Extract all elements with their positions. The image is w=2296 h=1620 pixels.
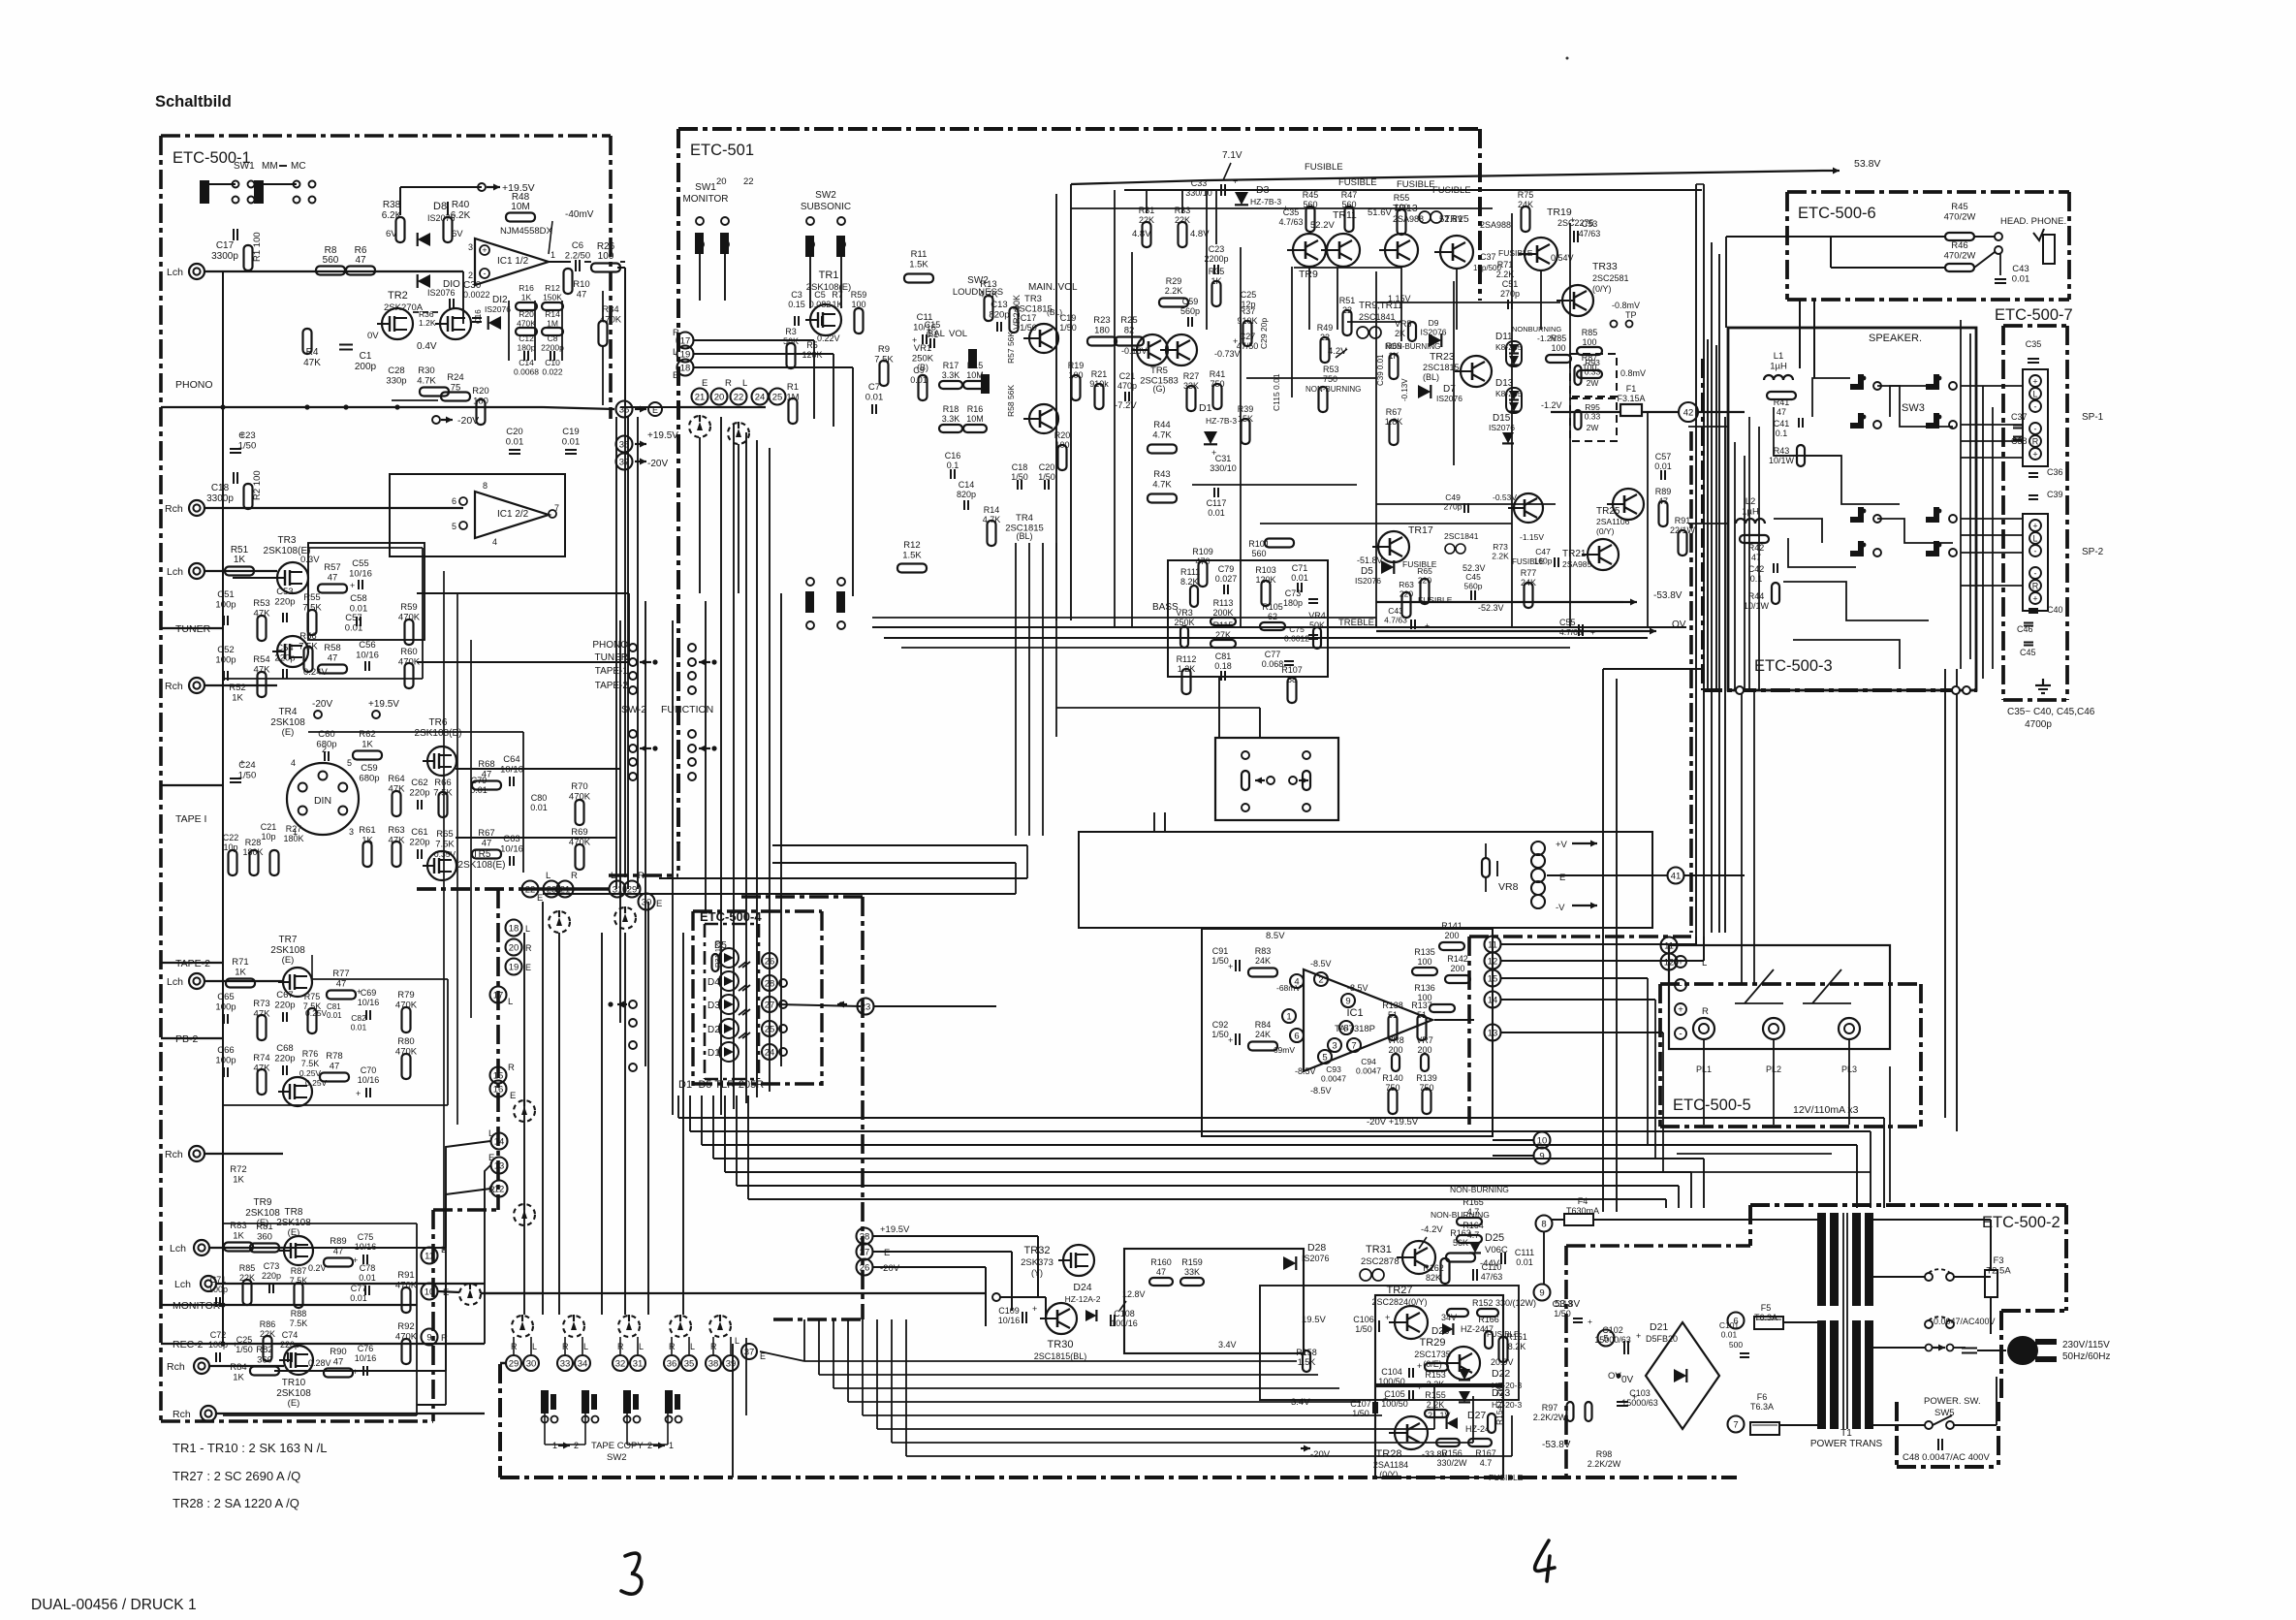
svg-text:-40mV: -40mV bbox=[565, 209, 594, 220]
svg-text:R78: R78 bbox=[326, 1051, 342, 1062]
svg-text:SW1: SW1 bbox=[695, 182, 716, 193]
svg-text:30: 30 bbox=[642, 897, 652, 907]
svg-text:8.2K: 8.2K bbox=[1508, 1342, 1526, 1351]
svg-text:470K: 470K bbox=[395, 1281, 418, 1291]
svg-text:T6.3A: T6.3A bbox=[1750, 1402, 1774, 1412]
svg-text:-8.5V: -8.5V bbox=[1295, 1066, 1316, 1076]
svg-text:R83: R83 bbox=[1255, 946, 1272, 956]
svg-text:0.01: 0.01 bbox=[359, 1273, 376, 1283]
svg-text:470K: 470K bbox=[395, 1332, 418, 1343]
svg-text:MM: MM bbox=[262, 161, 278, 172]
svg-text:FUSIBLE: FUSIBLE bbox=[1305, 162, 1343, 173]
svg-text:20: 20 bbox=[509, 942, 519, 953]
svg-text:C51: C51 bbox=[1502, 279, 1519, 289]
svg-text:R54: R54 bbox=[253, 654, 269, 665]
svg-text:ETC-500-3: ETC-500-3 bbox=[1754, 657, 1833, 675]
svg-text:C22: C22 bbox=[223, 833, 239, 842]
svg-text:0.1: 0.1 bbox=[947, 461, 959, 470]
svg-text:D1: D1 bbox=[708, 1048, 720, 1059]
svg-text:C37: C37 bbox=[1480, 252, 1496, 262]
svg-text:53.8V: 53.8V bbox=[1854, 158, 1880, 170]
svg-text:C52: C52 bbox=[217, 645, 234, 655]
svg-text:360: 360 bbox=[257, 1232, 272, 1243]
svg-text:50Hz/60Hz: 50Hz/60Hz bbox=[2062, 1351, 2110, 1362]
svg-text:C57: C57 bbox=[1655, 452, 1672, 461]
svg-text:R: R bbox=[441, 1333, 448, 1344]
svg-text:R65: R65 bbox=[1417, 566, 1432, 576]
svg-text:4.7K: 4.7K bbox=[1152, 430, 1172, 441]
svg-text:0.1: 0.1 bbox=[1750, 574, 1763, 584]
svg-text:C31: C31 bbox=[1215, 454, 1232, 463]
svg-text:R63: R63 bbox=[1399, 580, 1414, 589]
svg-text:+: + bbox=[1233, 336, 1238, 346]
svg-text:(E): (E) bbox=[282, 727, 295, 738]
svg-text:2W: 2W bbox=[1587, 423, 1599, 432]
svg-text:0.082: 0.082 bbox=[809, 300, 832, 309]
svg-text:E: E bbox=[656, 899, 662, 909]
svg-text:L: L bbox=[525, 924, 530, 934]
svg-text:10: 10 bbox=[425, 1286, 435, 1297]
svg-text:R: R bbox=[2032, 437, 2039, 447]
svg-text:R52: R52 bbox=[229, 683, 245, 693]
svg-text:FUSIBLE: FUSIBLE bbox=[1397, 179, 1435, 190]
svg-text:TR2: TR2 bbox=[388, 290, 408, 302]
svg-text:100p: 100p bbox=[215, 600, 236, 611]
svg-text:2W: 2W bbox=[1587, 378, 1599, 388]
svg-text:L: L bbox=[2032, 534, 2037, 544]
svg-text:-0.18V: -0.18V bbox=[1121, 346, 1148, 356]
svg-text:2SC2824(0/Y): 2SC2824(0/Y) bbox=[1371, 1297, 1427, 1307]
svg-text:2.2K: 2.2K bbox=[1492, 552, 1509, 561]
svg-text:IC1 1/2: IC1 1/2 bbox=[497, 256, 529, 267]
svg-text:D9: D9 bbox=[1429, 318, 1439, 328]
svg-text:D8: D8 bbox=[433, 201, 447, 212]
svg-text:C75: C75 bbox=[1289, 624, 1305, 634]
svg-text:L: L bbox=[488, 1128, 493, 1139]
svg-text:ETC-501: ETC-501 bbox=[690, 142, 754, 159]
svg-text:200p: 200p bbox=[355, 362, 377, 372]
svg-text:R51: R51 bbox=[1339, 296, 1356, 305]
svg-text:7.5K: 7.5K bbox=[301, 1059, 320, 1068]
svg-text:100p: 100p bbox=[208, 1285, 228, 1294]
svg-text:R84: R84 bbox=[1255, 1020, 1272, 1030]
svg-text:IS2076: IS2076 bbox=[1436, 394, 1463, 403]
svg-text:R41: R41 bbox=[1210, 369, 1226, 379]
svg-text:D3: D3 bbox=[708, 1001, 720, 1011]
svg-text:470p: 470p bbox=[1117, 381, 1137, 391]
svg-text:VR8: VR8 bbox=[1498, 881, 1519, 893]
svg-text:120K: 120K bbox=[802, 350, 822, 360]
svg-text:-1.15V: -1.15V bbox=[1520, 532, 1544, 542]
svg-text:+: + bbox=[1678, 1005, 1683, 1016]
svg-text:-8.5V: -8.5V bbox=[1310, 1086, 1332, 1096]
svg-text:7: 7 bbox=[1351, 1040, 1356, 1051]
svg-text:470K: 470K bbox=[398, 613, 421, 623]
svg-text:2K: 2K bbox=[1395, 329, 1405, 338]
svg-text:2.2K/2W: 2.2K/2W bbox=[1533, 1413, 1567, 1422]
svg-text:-0.13V: -0.13V bbox=[1400, 378, 1409, 401]
svg-text:FUSIBLE: FUSIBLE bbox=[1512, 557, 1544, 566]
svg-text:1K: 1K bbox=[233, 1231, 244, 1242]
svg-text:E: E bbox=[884, 1248, 890, 1258]
svg-text:3.3K: 3.3K bbox=[942, 414, 960, 424]
svg-text:4: 4 bbox=[291, 758, 296, 768]
svg-text:E: E bbox=[525, 963, 531, 972]
svg-text:F6: F6 bbox=[1757, 1392, 1768, 1402]
svg-text:470/2W: 470/2W bbox=[1944, 212, 1976, 223]
svg-text:C12: C12 bbox=[519, 334, 534, 343]
svg-text:R137: R137 bbox=[1411, 1001, 1432, 1010]
svg-text:C81: C81 bbox=[327, 1002, 341, 1011]
svg-text:0.18: 0.18 bbox=[1214, 661, 1232, 671]
svg-text:C77: C77 bbox=[351, 1284, 367, 1293]
svg-text:820p: 820p bbox=[989, 310, 1009, 321]
svg-text:0.01: 0.01 bbox=[530, 803, 548, 812]
svg-text:R41: R41 bbox=[1774, 397, 1790, 407]
svg-text:R24: R24 bbox=[447, 372, 463, 383]
svg-text:5: 5 bbox=[452, 522, 456, 531]
svg-text:C110: C110 bbox=[1482, 1262, 1502, 1272]
svg-text:HZ-24: HZ-24 bbox=[1465, 1424, 1490, 1434]
svg-text:VR4: VR4 bbox=[1308, 611, 1326, 620]
svg-text:TR33: TR33 bbox=[1592, 261, 1618, 272]
svg-text:C91: C91 bbox=[1212, 946, 1229, 956]
svg-text:C74: C74 bbox=[282, 1330, 299, 1340]
svg-text:24: 24 bbox=[755, 392, 766, 402]
svg-text:47K: 47K bbox=[389, 784, 406, 795]
svg-text:TR28 : 2 SA 1220 A: TR28 : 2 SA 1220 A /Q bbox=[173, 1496, 299, 1510]
svg-text:36: 36 bbox=[667, 1358, 677, 1369]
svg-text:C82: C82 bbox=[351, 1013, 366, 1023]
svg-text:47: 47 bbox=[333, 1357, 344, 1368]
svg-text:C70: C70 bbox=[361, 1065, 377, 1075]
svg-text:R38: R38 bbox=[383, 200, 401, 210]
svg-text:3300p: 3300p bbox=[206, 493, 234, 504]
svg-text:E: E bbox=[673, 370, 678, 381]
svg-text:L: L bbox=[735, 1336, 739, 1346]
svg-text:1µH: 1µH bbox=[1770, 362, 1787, 372]
svg-text:R14: R14 bbox=[984, 505, 1000, 515]
svg-text:R85: R85 bbox=[1582, 328, 1598, 337]
svg-text:R17: R17 bbox=[943, 361, 959, 370]
svg-text:R93: R93 bbox=[1585, 358, 1600, 367]
svg-text:7.5K: 7.5K bbox=[435, 840, 455, 850]
svg-text:C20: C20 bbox=[506, 427, 522, 437]
svg-text:Lch: Lch bbox=[170, 1243, 186, 1255]
svg-text:500: 500 bbox=[1729, 1340, 1743, 1350]
svg-text:C41: C41 bbox=[1774, 419, 1790, 429]
svg-text:2SC2878: 2SC2878 bbox=[1361, 1256, 1400, 1267]
svg-text:(BL): (BL) bbox=[1423, 372, 1439, 382]
svg-text:C19: C19 bbox=[562, 427, 579, 437]
svg-text:R40: R40 bbox=[452, 200, 470, 210]
svg-text:R9: R9 bbox=[878, 344, 890, 355]
svg-text:1K: 1K bbox=[233, 1175, 244, 1186]
svg-text:R1: R1 bbox=[787, 382, 799, 393]
svg-text:C18: C18 bbox=[1012, 462, 1028, 472]
svg-text:R59: R59 bbox=[851, 290, 867, 300]
svg-text:-4.2V: -4.2V bbox=[1421, 1224, 1443, 1235]
svg-text:TR10: TR10 bbox=[282, 1378, 306, 1388]
svg-text:41: 41 bbox=[1671, 871, 1682, 881]
svg-text:180: 180 bbox=[1094, 326, 1110, 336]
svg-text:IS2076: IS2076 bbox=[1302, 1254, 1330, 1263]
svg-text:R20: R20 bbox=[519, 309, 534, 319]
svg-text:Lch: Lch bbox=[174, 1279, 191, 1290]
svg-text:0.01: 0.01 bbox=[865, 393, 884, 403]
svg-text:13: 13 bbox=[1488, 1028, 1498, 1038]
svg-text:R25: R25 bbox=[1120, 315, 1137, 326]
svg-text:R59: R59 bbox=[400, 602, 417, 613]
svg-text:R58: R58 bbox=[324, 643, 340, 653]
svg-text:0V: 0V bbox=[1621, 1375, 1634, 1385]
svg-text:DIN: DIN bbox=[314, 795, 331, 807]
svg-text:R77: R77 bbox=[332, 969, 349, 979]
svg-text:47/63: 47/63 bbox=[1481, 1272, 1503, 1282]
svg-text:R90: R90 bbox=[330, 1347, 346, 1357]
svg-text:C81: C81 bbox=[1215, 651, 1232, 661]
svg-text:1K: 1K bbox=[232, 693, 243, 704]
svg-text:10p: 10p bbox=[261, 832, 275, 842]
svg-text:47: 47 bbox=[1777, 407, 1786, 417]
svg-text:270p: 270p bbox=[1500, 289, 1520, 299]
svg-text:D27: D27 bbox=[1467, 1410, 1486, 1421]
svg-text:-V: -V bbox=[1556, 903, 1565, 913]
svg-text:-20V: -20V bbox=[647, 459, 668, 469]
svg-text:E: E bbox=[1559, 873, 1565, 883]
svg-text:PHONO: PHONO bbox=[592, 640, 628, 651]
svg-text:C80: C80 bbox=[531, 793, 548, 803]
svg-text:R89: R89 bbox=[330, 1236, 346, 1247]
svg-text:220p: 220p bbox=[262, 1271, 281, 1281]
svg-text:D2: D2 bbox=[708, 1025, 720, 1035]
svg-text:C92: C92 bbox=[1212, 1020, 1229, 1030]
svg-text:R62: R62 bbox=[359, 729, 375, 740]
svg-text:R76: R76 bbox=[302, 1049, 319, 1059]
svg-text:+: + bbox=[353, 1367, 358, 1377]
svg-text:MC: MC bbox=[291, 161, 306, 172]
svg-text:7.5K: 7.5K bbox=[290, 1276, 308, 1286]
svg-text:6V: 6V bbox=[452, 229, 463, 239]
svg-text:0.01: 0.01 bbox=[1654, 461, 1672, 471]
svg-text:+: + bbox=[1636, 1331, 1641, 1341]
svg-text:20.9V: 20.9V bbox=[1491, 1357, 1514, 1367]
svg-text:33: 33 bbox=[560, 1358, 571, 1369]
svg-text:-: - bbox=[2034, 547, 2037, 556]
svg-text:47: 47 bbox=[328, 653, 338, 664]
svg-text:R85: R85 bbox=[239, 1263, 256, 1273]
svg-text:C1: C1 bbox=[360, 351, 372, 362]
svg-text:C13: C13 bbox=[991, 300, 1007, 310]
svg-text:100p: 100p bbox=[208, 1340, 228, 1350]
svg-text:IC1: IC1 bbox=[1346, 1007, 1363, 1019]
svg-text:C15: C15 bbox=[925, 320, 941, 330]
svg-text:+: + bbox=[2032, 594, 2037, 604]
svg-text:470K: 470K bbox=[569, 838, 591, 848]
svg-text:L: L bbox=[546, 871, 550, 881]
svg-text:0.01: 0.01 bbox=[910, 375, 928, 385]
svg-text:TR8: TR8 bbox=[285, 1207, 303, 1218]
svg-text:-51.8V: -51.8V bbox=[1357, 556, 1383, 565]
svg-text:TR11: TR11 bbox=[1333, 209, 1357, 221]
svg-text:C61: C61 bbox=[411, 827, 427, 838]
svg-text:C56: C56 bbox=[359, 640, 375, 651]
svg-text:100p: 100p bbox=[215, 1056, 236, 1066]
svg-text:VR7: VR7 bbox=[1416, 1035, 1433, 1045]
svg-text:R29: R29 bbox=[1166, 276, 1182, 286]
svg-text:TR30: TR30 bbox=[1048, 1339, 1074, 1350]
svg-text:100p: 100p bbox=[215, 655, 236, 666]
svg-text:C79: C79 bbox=[1218, 564, 1235, 574]
svg-text:R155: R155 bbox=[1425, 1390, 1446, 1400]
svg-text:36: 36 bbox=[619, 404, 630, 415]
svg-text:R111: R111 bbox=[1180, 567, 1200, 577]
svg-text:C57: C57 bbox=[345, 613, 362, 623]
svg-text:C3: C3 bbox=[791, 290, 802, 300]
svg-text:TR28: TR28 bbox=[1376, 1448, 1402, 1460]
svg-text:47K: 47K bbox=[254, 665, 271, 676]
svg-text:TAPE-2: TAPE-2 bbox=[595, 681, 629, 691]
svg-text:+: + bbox=[350, 581, 355, 590]
svg-text:R13: R13 bbox=[980, 279, 996, 290]
svg-text:C14: C14 bbox=[519, 358, 534, 367]
svg-text:R23: R23 bbox=[1093, 315, 1110, 326]
svg-text:200K: 200K bbox=[1212, 608, 1233, 618]
svg-text:ETC-500-2: ETC-500-2 bbox=[1982, 1214, 2060, 1231]
svg-text:C39 0.01: C39 0.01 bbox=[1376, 354, 1385, 386]
svg-text:R140: R140 bbox=[1382, 1073, 1403, 1083]
svg-text:0.01: 0.01 bbox=[327, 1011, 342, 1020]
svg-text:5: 5 bbox=[1603, 1333, 1608, 1344]
svg-text:2: 2 bbox=[468, 270, 473, 280]
svg-text:R83: R83 bbox=[230, 1221, 246, 1231]
svg-text:10M: 10M bbox=[511, 202, 529, 212]
svg-text:TR9: TR9 bbox=[1299, 269, 1318, 280]
svg-text:R85: R85 bbox=[1551, 334, 1567, 343]
svg-text:C16: C16 bbox=[945, 451, 961, 461]
svg-text:+: + bbox=[1425, 620, 1430, 630]
svg-text:C48 0.0047/AC 400V: C48 0.0047/AC 400V bbox=[1903, 1452, 1990, 1463]
svg-text:100: 100 bbox=[1551, 343, 1565, 353]
svg-text:16: 16 bbox=[493, 1084, 504, 1095]
svg-text:0.15: 0.15 bbox=[788, 300, 805, 309]
svg-text:220p: 220p bbox=[409, 788, 429, 799]
svg-text:100: 100 bbox=[598, 251, 614, 262]
svg-text:(0/Y): (0/Y) bbox=[1596, 526, 1615, 536]
svg-text:C20: C20 bbox=[1039, 462, 1055, 472]
svg-text:C39: C39 bbox=[2047, 490, 2063, 499]
svg-text:+: + bbox=[1385, 1313, 1390, 1322]
svg-text:10/16: 10/16 bbox=[356, 651, 379, 661]
svg-text:20: 20 bbox=[716, 176, 727, 187]
svg-text:POWER. SW.: POWER. SW. bbox=[1924, 1396, 1981, 1407]
svg-text:230V/115V: 230V/115V bbox=[2062, 1340, 2110, 1350]
svg-text:10/16: 10/16 bbox=[355, 1353, 377, 1363]
svg-text:C14: C14 bbox=[959, 480, 975, 490]
svg-text:+19.5V: +19.5V bbox=[880, 1224, 910, 1235]
svg-text:C19: C19 bbox=[1060, 313, 1077, 323]
svg-text:180p: 180p bbox=[1283, 598, 1303, 608]
svg-text:L: L bbox=[690, 1342, 695, 1351]
svg-text:5: 5 bbox=[347, 758, 352, 768]
svg-text:R49: R49 bbox=[1317, 323, 1334, 333]
svg-text:R27: R27 bbox=[286, 824, 302, 834]
svg-text:100p: 100p bbox=[215, 1002, 236, 1013]
svg-text:470/2W: 470/2W bbox=[1944, 251, 1976, 262]
svg-text:R: R bbox=[1702, 1006, 1709, 1017]
svg-text:2SC1815: 2SC1815 bbox=[1014, 304, 1053, 315]
svg-text:R12: R12 bbox=[903, 540, 920, 551]
svg-text:TR29: TR29 bbox=[1420, 1337, 1446, 1349]
svg-text:1/50: 1/50 bbox=[1355, 1324, 1372, 1334]
svg-text:SW3: SW3 bbox=[1902, 402, 1925, 414]
svg-text:R160: R160 bbox=[1150, 1257, 1172, 1267]
svg-text:2200p: 2200p bbox=[541, 343, 564, 353]
svg-text:14: 14 bbox=[494, 1136, 505, 1147]
svg-text:560: 560 bbox=[323, 255, 339, 266]
svg-text:47: 47 bbox=[330, 1062, 340, 1072]
svg-text:0.01: 0.01 bbox=[351, 1023, 367, 1032]
svg-text:1/50: 1/50 bbox=[1554, 1309, 1571, 1318]
svg-text:1.2K: 1.2K bbox=[419, 318, 436, 328]
svg-text:C117: C117 bbox=[1207, 498, 1227, 508]
svg-text:VR3: VR3 bbox=[1176, 608, 1193, 618]
svg-text:TR17: TR17 bbox=[1408, 524, 1433, 536]
svg-text:R18: R18 bbox=[943, 404, 959, 414]
svg-text:C53: C53 bbox=[1582, 219, 1598, 229]
svg-text:R1 100: R1 100 bbox=[252, 232, 263, 262]
svg-text:1/50: 1/50 bbox=[1011, 472, 1028, 482]
svg-text:1K: 1K bbox=[234, 555, 246, 565]
svg-text:2SK108(E): 2SK108(E) bbox=[806, 282, 851, 293]
svg-text:R20: R20 bbox=[472, 386, 488, 397]
svg-text:220p: 220p bbox=[274, 597, 295, 608]
svg-text:OV: OV bbox=[1672, 619, 1686, 630]
svg-text:R65: R65 bbox=[436, 829, 453, 840]
svg-text:C60: C60 bbox=[318, 729, 334, 740]
svg-text:6: 6 bbox=[1733, 1316, 1738, 1326]
svg-text:2.2K/2W: 2.2K/2W bbox=[1588, 1459, 1621, 1469]
svg-text:C115 0.01: C115 0.01 bbox=[1272, 373, 1281, 411]
svg-text:R135: R135 bbox=[1414, 947, 1435, 957]
svg-text:19: 19 bbox=[509, 962, 519, 972]
svg-text:6.2K: 6.2K bbox=[451, 210, 471, 221]
svg-text:7: 7 bbox=[1733, 1419, 1738, 1430]
svg-text:R16: R16 bbox=[519, 283, 534, 293]
svg-text:TR4: TR4 bbox=[1016, 513, 1033, 524]
svg-text:24K: 24K bbox=[1255, 956, 1271, 966]
svg-text:1.8K: 1.8K bbox=[1385, 417, 1403, 427]
svg-text:42: 42 bbox=[1683, 407, 1694, 418]
svg-text:4700p: 4700p bbox=[2025, 719, 2052, 730]
svg-text:R71: R71 bbox=[232, 957, 248, 968]
svg-text:2SA988: 2SA988 bbox=[1480, 220, 1511, 230]
svg-text:C67: C67 bbox=[276, 990, 293, 1001]
svg-text:1/50: 1/50 bbox=[236, 1345, 253, 1354]
svg-text:-53.8V: -53.8V bbox=[1653, 590, 1683, 601]
svg-text:R55: R55 bbox=[303, 592, 320, 603]
svg-text:22: 22 bbox=[743, 176, 754, 187]
svg-text:0.25V: 0.25V bbox=[305, 1008, 328, 1018]
svg-text:47: 47 bbox=[333, 1247, 344, 1257]
svg-text:+: + bbox=[353, 1255, 358, 1265]
svg-text:2.2/50: 2.2/50 bbox=[565, 251, 590, 262]
svg-text:ETC-500-6: ETC-500-6 bbox=[1798, 205, 1876, 222]
svg-text:Rch: Rch bbox=[165, 503, 183, 515]
svg-text:R: R bbox=[508, 1063, 515, 1073]
svg-text:47: 47 bbox=[482, 770, 492, 780]
svg-text:VR8: VR8 bbox=[1387, 1035, 1404, 1045]
